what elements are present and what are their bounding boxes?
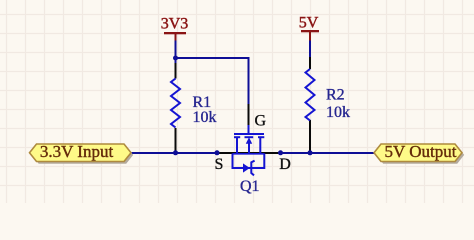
- svg-text:S: S: [215, 156, 224, 173]
- svg-text:5V Output: 5V Output: [385, 142, 457, 161]
- svg-text:10k: 10k: [326, 104, 350, 121]
- svg-text:5V: 5V: [299, 15, 319, 32]
- svg-text:Q1: Q1: [240, 178, 260, 195]
- svg-text:R2: R2: [326, 87, 345, 104]
- svg-text:10k: 10k: [193, 109, 217, 126]
- svg-text:D: D: [279, 156, 291, 173]
- svg-text:G: G: [255, 113, 267, 130]
- svg-text:3.3V Input: 3.3V Input: [40, 142, 114, 161]
- svg-text:3V3: 3V3: [161, 16, 189, 33]
